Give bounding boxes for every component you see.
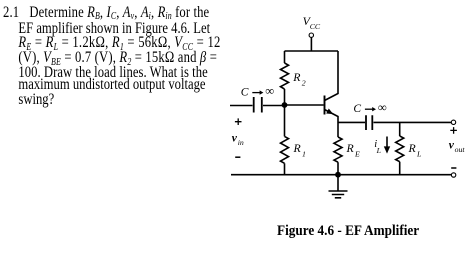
transistor Q1 base bar (324, 96, 326, 115)
resistor RL (396, 136, 404, 162)
wire input stub (230, 105, 253, 107)
wire VCC stub (310, 37, 312, 51)
svg-text:CC: CC (310, 22, 321, 31)
label vout plus (450, 127, 457, 134)
wire cap to node (263, 105, 285, 107)
node base junction dot (282, 102, 288, 108)
wire R1 branch (284, 105, 286, 136)
resistor R1 (281, 136, 289, 163)
label vin minus (235, 156, 240, 158)
svg-text:R: R (293, 141, 302, 155)
wire emitter to output cap (338, 121, 365, 123)
terminal vout- circle (451, 173, 455, 177)
svg-text:in: in (238, 138, 244, 147)
svg-text:C: C (241, 86, 249, 98)
svg-text:1: 1 (302, 149, 306, 158)
svg-text:R: R (408, 141, 417, 155)
wire RL bottom (399, 162, 401, 175)
svg-text:∞: ∞ (265, 84, 274, 98)
svg-text:E: E (354, 150, 360, 159)
svg-text:L: L (416, 150, 421, 159)
problem statement text (3, 0, 224, 130)
wire emitter junction down (337, 123, 339, 137)
label vin plus (235, 118, 242, 125)
wire R1 bottom (284, 163, 286, 174)
wire bottom rail (231, 174, 451, 176)
wire RL branch (399, 122, 401, 136)
resistor RE (334, 137, 342, 162)
svg-text:2: 2 (302, 79, 306, 88)
figure caption (277, 223, 419, 240)
wire R2 bottom to node (284, 89, 286, 105)
transistor Q1 emitter arrow (326, 109, 333, 115)
terminal VCC circle (309, 33, 313, 37)
svg-text:C: C (353, 103, 361, 115)
wire R2 branch top (284, 51, 286, 63)
svg-text:R: R (292, 70, 301, 84)
wire node to base (285, 104, 324, 106)
capacitor C output (366, 115, 372, 130)
wire RE bottom (337, 162, 339, 175)
capacitor C input (254, 97, 262, 113)
transistor Q1 collector (325, 51, 339, 101)
svg-text:R: R (346, 141, 355, 155)
svg-text:L: L (376, 146, 381, 155)
terminal vout+ circle (451, 120, 455, 124)
wire cap to output terminal (374, 121, 452, 123)
current arrow iL head (384, 146, 390, 153)
svg-text:∞: ∞ (378, 101, 387, 115)
current arrow iL (386, 137, 388, 148)
label vout minus (451, 167, 456, 169)
ground (329, 175, 348, 198)
transistor Q1 emitter (325, 110, 339, 124)
resistor R2 (281, 63, 289, 89)
wire top rail (285, 50, 339, 52)
svg-text:out: out (455, 145, 466, 154)
node ground junction dot (335, 172, 341, 178)
